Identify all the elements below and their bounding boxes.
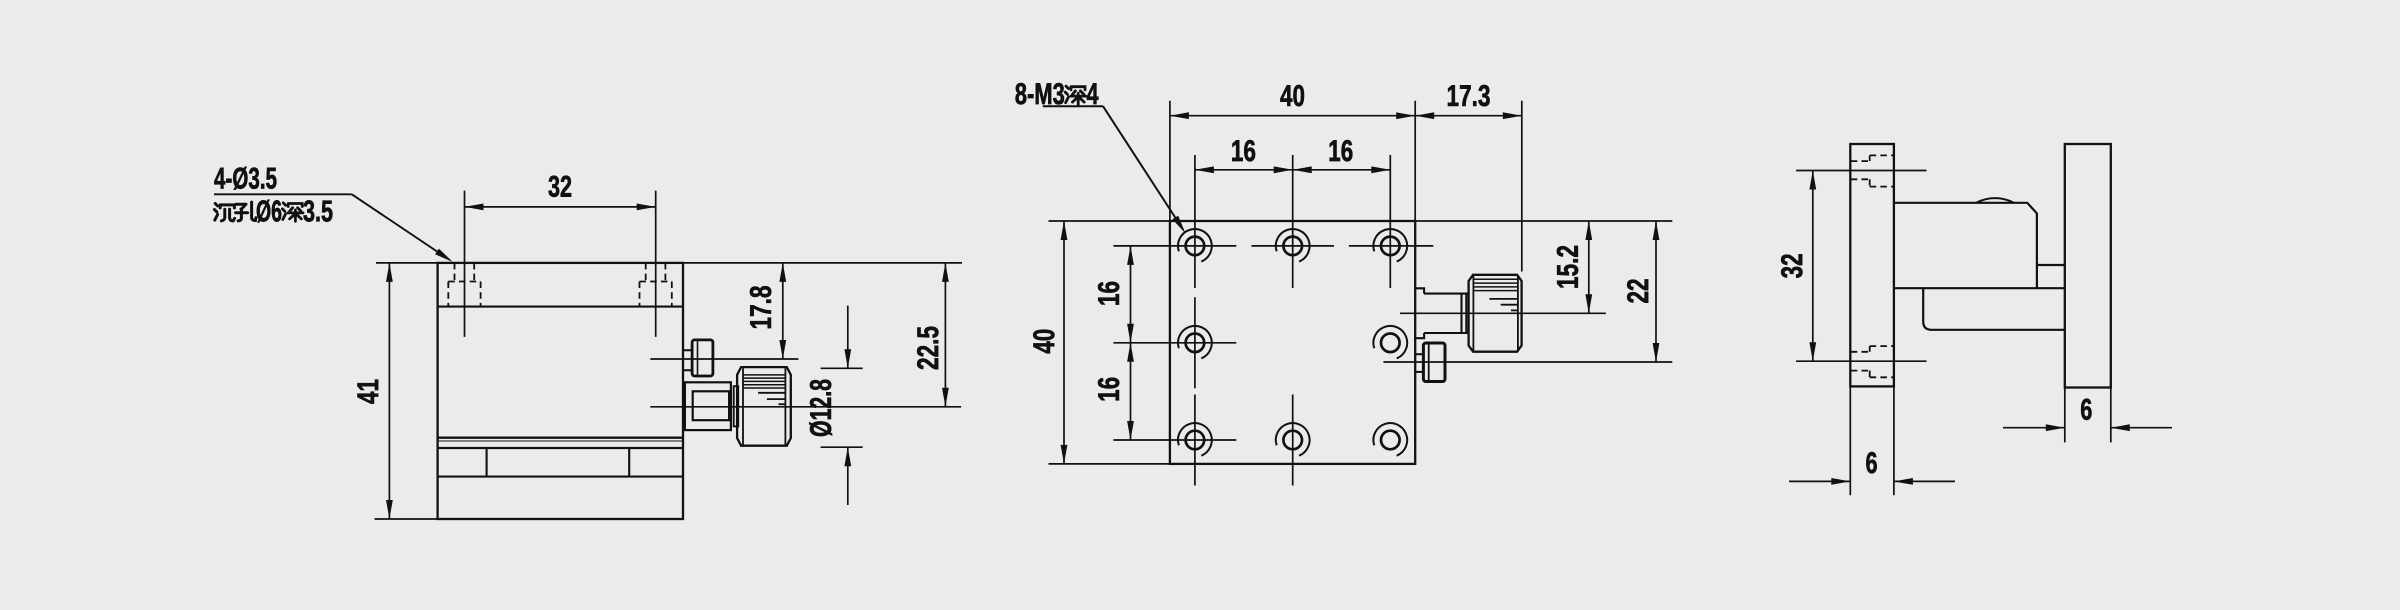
- M3 tapped holes: [1178, 229, 1212, 262]
- hole centerline right: [655, 191, 657, 337]
- left mounting plate: [1850, 144, 1894, 386]
- hole crosshair horizontals: [1113, 246, 1433, 440]
- dim 6 extension lines right plate: [2065, 388, 2111, 443]
- counterbore hole right dashed: [640, 263, 672, 307]
- internal line upper of base: [438, 437, 683, 439]
- top counterbore dashed: [1851, 155, 1894, 186]
- dimension 17.3 top: [1415, 85, 1522, 272]
- micrometer centerline: [650, 406, 961, 408]
- dimension 22: [1627, 221, 1659, 362]
- dimension 40 top: [1170, 85, 1415, 221]
- stage body outline: [438, 263, 683, 519]
- barrel knurl lines: [743, 375, 785, 388]
- hole crosshair verticals rows 2,3: [1195, 297, 1293, 485]
- dimension 32 top: [465, 176, 656, 211]
- bottom hole centerline: [1796, 360, 1926, 362]
- internal thin line: [438, 440, 683, 442]
- dimension 17.8: [750, 263, 786, 359]
- micrometer shaft: [1424, 294, 1469, 333]
- top hole centerline: [1796, 170, 1926, 172]
- base divider right: [628, 448, 630, 477]
- dimension 16 16 left: [1098, 246, 1134, 440]
- dimension 22.5: [917, 263, 949, 407]
- bottom counterbore dashed: [1851, 346, 1894, 377]
- bottom edge extension left: [1049, 463, 1170, 465]
- dimension O12.8 knob diameter: [809, 306, 862, 505]
- leader 8-M3 deep 4: [1016, 83, 1189, 235]
- dimension 32 right view: [1781, 171, 1816, 362]
- dimension 6 right plate: [2003, 399, 2172, 431]
- dimension 40 left: [1033, 221, 1067, 464]
- right mounting plate: [2065, 144, 2111, 388]
- top edge extension right: [1415, 220, 1672, 222]
- barrel graduation marks top view: [1489, 299, 1518, 311]
- hole centerline left: [464, 191, 466, 337]
- micrometer knob barrel: [737, 367, 791, 446]
- hole crosshair verticals row1: [1195, 155, 1390, 288]
- top surface extension line left: [376, 262, 438, 264]
- middle body lower block: [1923, 288, 2065, 330]
- middle body top: [1894, 198, 2065, 288]
- lock knob centerline: [650, 358, 798, 360]
- top surface extension line right: [683, 262, 962, 264]
- dimension 16 16 top: [1195, 140, 1390, 173]
- bottom extension line for dim 41: [375, 518, 438, 520]
- barrel knurl lines top view: [1473, 279, 1518, 290]
- lock knob side view: [683, 340, 713, 376]
- micrometer clamp block: [685, 382, 731, 430]
- dim 6 extension lines left plate: [1850, 386, 1894, 495]
- counterbore hole left dashed: [448, 263, 480, 307]
- micrometer centerline top view: [1400, 312, 1606, 314]
- flange bottom line: [438, 306, 683, 308]
- top edge extension left: [1049, 220, 1170, 222]
- barrel graduation marks: [758, 393, 785, 404]
- micrometer knob barrel top view: [1469, 275, 1522, 352]
- lock knob top view: [1415, 343, 1445, 382]
- plate outline: [1170, 221, 1415, 464]
- dimension 41 left: [358, 263, 393, 519]
- leader 4-O3.5 counterbore note: [214, 167, 455, 265]
- micrometer bracket steps: [1415, 288, 1424, 338]
- micrometer flange bar: [734, 386, 739, 426]
- internal line below thin: [438, 447, 683, 449]
- internal line lower: [438, 476, 683, 478]
- lock knob centerline top view: [1383, 361, 1672, 363]
- dimension 15.2: [1557, 221, 1592, 313]
- base divider left: [486, 448, 488, 477]
- dimension 6 left plate: [1789, 452, 1955, 485]
